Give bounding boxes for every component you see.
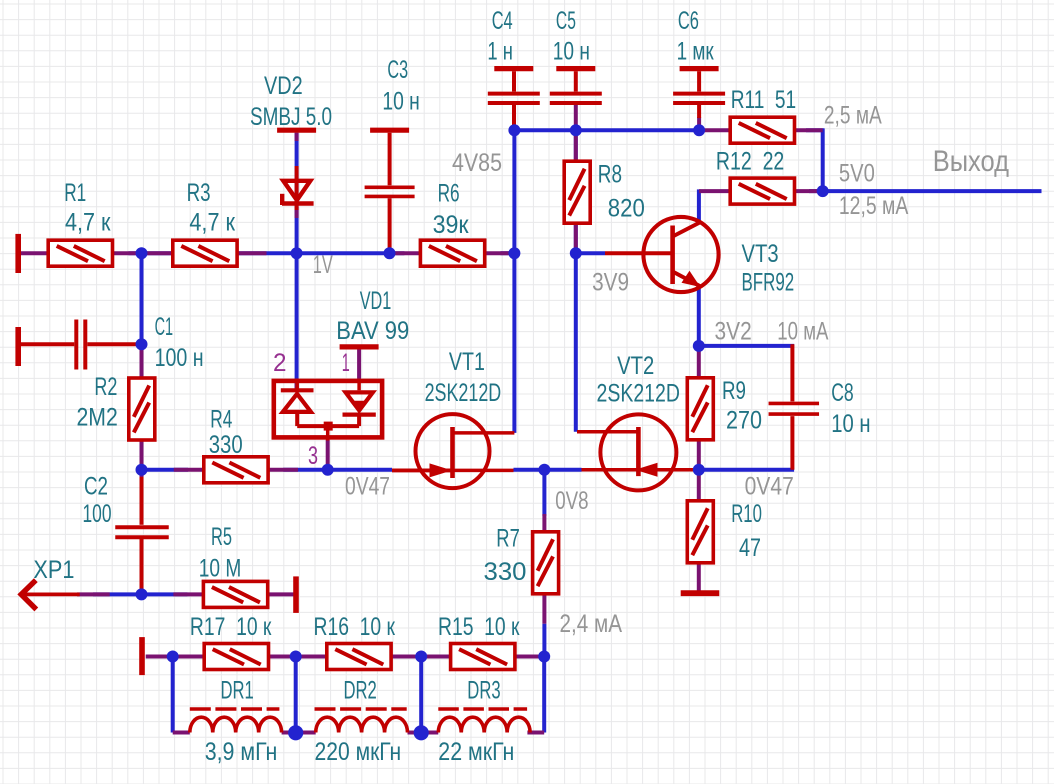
label VT3 <box>742 240 779 268</box>
svg-text:R3: R3 <box>187 179 211 207</box>
label VT2 value <box>597 380 680 408</box>
wire overlap R11 pins <box>700 128 823 132</box>
label VD1 <box>360 287 392 315</box>
resistor R8 <box>564 161 590 223</box>
label R6 <box>438 179 460 207</box>
resistor R15 <box>451 644 515 670</box>
label R7 value <box>484 558 527 586</box>
inductor DR2 <box>315 709 408 733</box>
svg-text:R15 10 к: R15 10 к <box>438 613 520 641</box>
label XP1 <box>33 556 74 584</box>
wire overlap C5 bottom pin <box>574 105 578 130</box>
wire overlap VD1 pin3 <box>326 440 330 470</box>
svg-text:1: 1 <box>342 349 350 377</box>
label R3 <box>187 179 211 207</box>
label VT3 value <box>742 269 795 297</box>
label DR1 value <box>205 738 278 766</box>
svg-text:VT3: VT3 <box>742 240 779 268</box>
node C6 top rail <box>693 124 705 136</box>
capacitor C6 <box>673 69 725 103</box>
svg-text:10 н: 10 н <box>382 88 419 116</box>
svg-text:39к: 39к <box>433 211 470 239</box>
inductor DR3 <box>438 709 530 733</box>
label C2 value <box>83 500 112 528</box>
svg-text:R12 22: R12 22 <box>716 148 784 176</box>
diode VD1 left diode <box>281 379 314 412</box>
wire overlap R2 pins <box>140 344 144 470</box>
label R9 <box>722 377 746 405</box>
svg-text:1 мк: 1 мк <box>677 37 715 65</box>
wire VD2 column <box>295 133 299 254</box>
transistor VT2 <box>577 414 696 490</box>
label 3V2 <box>715 318 752 346</box>
pin number 2 <box>273 349 287 377</box>
svg-text:XP1: XP1 <box>33 556 74 584</box>
svg-text:R11 51: R11 51 <box>731 86 797 114</box>
wire DR2-DR3 vertical <box>419 657 423 733</box>
wire C4 column down to VT1 drain <box>512 130 516 433</box>
label R1 <box>64 179 86 207</box>
wire overlap R17 pins <box>173 655 296 659</box>
node 0V47 right <box>693 464 705 476</box>
label R1 value <box>65 209 111 237</box>
svg-text:4,7 к: 4,7 к <box>65 209 111 237</box>
wire overlap R4 pins <box>174 468 298 472</box>
resistor R17 <box>204 644 268 670</box>
resistor R6 <box>420 240 484 266</box>
label R10 <box>731 500 762 528</box>
svg-text:C8: C8 <box>831 379 854 407</box>
wire VT3 emitter down to 3V2 node <box>697 286 701 346</box>
label C1 <box>155 313 174 341</box>
wire overlap R15 pins <box>421 655 544 659</box>
label 2,5 mA <box>824 102 882 130</box>
resistor R3 <box>173 240 237 266</box>
label R8 value <box>608 195 645 223</box>
node R15 right <box>538 651 550 663</box>
label R11 <box>731 86 797 114</box>
svg-text:VD1: VD1 <box>360 287 392 315</box>
pin VT3 base lead <box>605 251 671 255</box>
label DR3 value <box>438 738 514 766</box>
wire 0V47 row left R4-VD1-VT1 <box>142 468 393 472</box>
resistor R12 <box>730 178 794 204</box>
svg-text:1 н: 1 н <box>487 37 513 65</box>
label R3 value <box>189 209 236 237</box>
wire overlap DR1 pins <box>173 731 296 735</box>
wire overlap R3 pins <box>142 251 267 255</box>
wire 0V8 node to VT2 <box>544 468 581 472</box>
resistor R7 <box>533 532 559 594</box>
wire R12 left corner <box>697 189 701 222</box>
pin C6 leads <box>697 71 701 118</box>
diode VD2 terminal bar <box>277 128 316 133</box>
node R17 left <box>167 651 179 663</box>
diode VD1 pin 1 terminal bar <box>340 344 379 349</box>
svg-text:2,4 мА: 2,4 мА <box>560 610 623 638</box>
wire output to right edge <box>809 189 1042 193</box>
inductor DR1 <box>190 709 282 733</box>
capacitor C1 <box>76 320 85 370</box>
label 5V0 <box>839 159 875 187</box>
svg-text:Выход: Выход <box>933 145 1009 178</box>
label 0V47 right <box>745 473 794 501</box>
svg-text:10 M: 10 M <box>199 554 242 582</box>
wire overlap R12 pins <box>699 189 818 193</box>
label C1 value <box>155 344 204 372</box>
wire overlap DR2 pins <box>296 731 422 735</box>
wire overlap VD1 pin1 <box>357 349 361 379</box>
node 3V9 <box>570 247 582 259</box>
label VD1 value <box>336 317 409 345</box>
label VT1 value <box>425 379 502 407</box>
label Vykhod output <box>933 145 1009 178</box>
pin C3 leads <box>388 133 392 254</box>
svg-text:BFR92: BFR92 <box>742 269 795 297</box>
wire overlap R9 pins <box>697 346 701 470</box>
svg-text:R8: R8 <box>598 161 622 189</box>
pin C2 leads <box>140 477 144 594</box>
wire VT1 source to 0V8 node <box>514 468 545 472</box>
svg-text:330: 330 <box>209 431 243 459</box>
svg-text:R7: R7 <box>496 525 520 553</box>
svg-text:C4: C4 <box>492 7 513 35</box>
svg-text:3V9: 3V9 <box>592 269 629 297</box>
label VT1 <box>449 348 485 376</box>
node 3V2 <box>693 340 705 352</box>
svg-text:100: 100 <box>83 500 112 528</box>
svg-text:R10: R10 <box>731 500 762 528</box>
label R4 value <box>209 431 243 459</box>
label R7 <box>496 525 520 553</box>
label C8 value <box>831 410 870 438</box>
wire 3V9 node to VT3 base <box>576 251 605 255</box>
wire VD2 node down to VD1 pin 2 <box>295 253 299 390</box>
pin C1 right lead <box>87 342 141 346</box>
svg-text:R4: R4 <box>210 406 232 434</box>
svg-text:2: 2 <box>273 349 287 377</box>
label C6 <box>678 7 699 35</box>
svg-text:C1: C1 <box>155 313 174 341</box>
node XP1 <box>136 588 148 600</box>
terminal bottom chain left <box>139 637 145 675</box>
label DR1 <box>221 676 254 704</box>
svg-text:10 н: 10 н <box>553 37 590 65</box>
svg-text:R9: R9 <box>722 377 746 405</box>
svg-text:C6: C6 <box>678 7 699 35</box>
svg-text:12,5 мА: 12,5 мА <box>839 192 909 220</box>
label C5 value <box>553 37 590 65</box>
svg-text:SMBJ 5.0: SMBJ 5.0 <box>250 103 332 131</box>
label C2 <box>84 473 108 501</box>
node R6/C4 4V85 <box>508 247 520 259</box>
svg-text:22 мкГн: 22 мкГн <box>438 738 514 766</box>
wire 0V8 node down to R7 <box>542 470 546 516</box>
wire 0V47 node to C8 bottom corner <box>699 468 794 472</box>
svg-text:DR2: DR2 <box>344 676 377 704</box>
svg-text:DR3: DR3 <box>467 676 500 704</box>
label R6 value <box>433 211 470 239</box>
node 5V0 output <box>817 185 829 197</box>
label R17 <box>190 613 272 641</box>
wire overlap VD1 pin2 <box>295 379 299 390</box>
svg-text:C3: C3 <box>387 56 408 84</box>
node C4 top rail <box>508 124 520 136</box>
pin C1 left lead <box>21 342 74 346</box>
wire C1 node vertical <box>140 253 144 344</box>
pin VD2 lead <box>295 166 299 210</box>
label R4 <box>210 406 232 434</box>
label C8 <box>831 379 854 407</box>
svg-text:3: 3 <box>308 442 318 470</box>
wire DR1-DR2 vertical <box>294 657 298 733</box>
resistor R1 <box>48 240 112 266</box>
wire overlap R7 pins <box>542 514 546 624</box>
label C3 value <box>382 88 419 116</box>
pin C4 leads <box>512 71 516 128</box>
svg-text:220 мкГн: 220 мкГн <box>315 738 402 766</box>
diode VD2 <box>282 181 314 205</box>
label C4 <box>492 7 513 35</box>
wire XP1 row <box>93 592 187 596</box>
svg-text:2,5 мА: 2,5 мА <box>824 102 882 130</box>
label C4 value <box>487 37 513 65</box>
pin number 3 <box>308 442 318 470</box>
svg-text:0V8: 0V8 <box>555 487 588 515</box>
resistor R16 <box>327 644 391 670</box>
node C1 cap <box>136 338 148 350</box>
label R15 <box>438 613 520 641</box>
pin number 1 <box>342 349 350 377</box>
label 0V47 left <box>345 473 390 501</box>
svg-text:10 н: 10 н <box>831 410 870 438</box>
svg-text:4V85: 4V85 <box>452 149 502 177</box>
label R10 value <box>739 534 761 562</box>
transistor VT1 <box>392 414 514 488</box>
label R5 value <box>199 554 242 582</box>
label R2 <box>94 373 117 401</box>
diode VD1 box <box>274 381 382 438</box>
node C3 1V <box>384 247 396 259</box>
svg-text:0V47: 0V47 <box>745 473 794 501</box>
svg-text:VD2: VD2 <box>264 72 303 100</box>
wire bottom chain row <box>173 655 545 659</box>
wire overlap XP1 pin <box>77 592 110 596</box>
label VT2 <box>617 352 654 380</box>
svg-text:270: 270 <box>726 406 762 434</box>
pin C5 top lead <box>574 71 578 91</box>
terminal left C1 <box>15 327 21 366</box>
label 3V9 <box>592 269 629 297</box>
node 0V8 <box>538 464 550 476</box>
node R15 left <box>415 651 427 663</box>
svg-text:3,9 мГн: 3,9 мГн <box>205 738 278 766</box>
label 2,4 mA <box>560 610 623 638</box>
label DR2 value <box>315 738 402 766</box>
ground under R10 <box>681 590 720 596</box>
resistor R2 <box>129 378 155 440</box>
svg-text:100 н: 100 н <box>155 344 204 372</box>
svg-text:2SK212D: 2SK212D <box>425 379 502 407</box>
svg-text:DR1: DR1 <box>221 676 254 704</box>
diode VD1 internal junction <box>297 412 359 441</box>
wire overlap DR3 pins <box>421 731 544 735</box>
label C5 <box>556 7 576 35</box>
svg-text:R6: R6 <box>438 179 460 207</box>
wire R7 bottom to chain node <box>542 624 546 657</box>
wire overlap R6 pins <box>390 251 514 255</box>
svg-text:3V2: 3V2 <box>715 318 752 346</box>
wire R11 right to corner <box>806 128 824 132</box>
label 4V85 <box>452 149 502 177</box>
label DR3 <box>467 676 500 704</box>
terminal left top <box>15 234 21 273</box>
svg-text:R2: R2 <box>94 373 117 401</box>
wire overlap C2 top stub <box>140 470 144 478</box>
wire overlap bottom terminal <box>146 655 173 659</box>
label R12 <box>716 148 784 176</box>
wire C5 column R8 to 3V9 column down to VT2 drain <box>574 130 578 432</box>
label R16 <box>314 613 396 641</box>
label VD2 value <box>250 103 332 131</box>
terminal R5 right <box>293 576 299 613</box>
svg-text:R17 10 к: R17 10 к <box>190 613 272 641</box>
label C6 value <box>677 37 715 65</box>
wire corner down to 5V0 node <box>821 129 825 192</box>
svg-text:1V: 1V <box>313 251 333 279</box>
label 10 mA <box>777 318 828 346</box>
wire 3V2 node to C8 top corner <box>699 344 794 348</box>
node C1 tee <box>136 247 148 259</box>
resistor R5 <box>203 581 267 607</box>
svg-text:C5: C5 <box>556 7 576 35</box>
node DR1-DR2 <box>288 725 303 740</box>
node VD2/VD1 <box>291 247 303 259</box>
label 12,5 mA <box>839 192 909 220</box>
label DR2 <box>344 676 377 704</box>
wire overlap R5 pins <box>173 592 296 596</box>
wire main 1V rail R1-R3-R6 <box>129 251 515 255</box>
svg-text:C2: C2 <box>84 473 108 501</box>
capacitor C3 <box>365 130 415 196</box>
svg-text:2M2: 2M2 <box>77 404 118 432</box>
svg-text:47: 47 <box>739 534 761 562</box>
diode VD1 right diode <box>343 379 376 415</box>
wire overlap C6 bottom pin <box>697 117 701 130</box>
label R2 value <box>77 404 118 432</box>
label C3 <box>387 56 408 84</box>
resistor R10 <box>687 501 713 563</box>
wire overlap R8 pins <box>574 130 578 253</box>
svg-text:BAV 99: BAV 99 <box>336 317 409 345</box>
node C5 top rail <box>570 124 582 136</box>
pin C8 leads <box>790 344 794 470</box>
transistor VT3 <box>643 217 718 292</box>
node R4 left <box>136 464 148 476</box>
svg-text:330: 330 <box>484 558 527 586</box>
svg-text:0V47: 0V47 <box>345 473 390 501</box>
resistor R11 <box>730 117 794 143</box>
wire overlap R16 pins <box>296 655 422 659</box>
wire overlap R10 pins <box>697 470 701 591</box>
svg-text:10 мА: 10 мА <box>777 318 828 346</box>
label 0V8 <box>555 487 588 515</box>
svg-text:4,7 к: 4,7 к <box>189 209 236 237</box>
capacitor C2 <box>115 527 169 537</box>
svg-text:VT2: VT2 <box>617 352 654 380</box>
capacitor C4 <box>488 69 540 103</box>
label R8 <box>598 161 622 189</box>
wire DR3 right vertical to R7 <box>542 657 546 733</box>
capacitor C5 <box>550 69 602 103</box>
label R5 <box>211 523 232 551</box>
svg-text:R1: R1 <box>64 179 86 207</box>
node DR2-DR3 <box>414 725 429 740</box>
resistor R9 <box>687 378 713 440</box>
svg-text:VT1: VT1 <box>449 348 485 376</box>
svg-text:2SK212D: 2SK212D <box>597 380 680 408</box>
node R16 left <box>290 651 302 663</box>
label R9 value <box>726 406 762 434</box>
svg-text:R16 10 к: R16 10 к <box>314 613 396 641</box>
connector XP1 arrow <box>21 580 80 609</box>
svg-text:R5: R5 <box>211 523 232 551</box>
svg-text:820: 820 <box>608 195 645 223</box>
wire DR1 left vertical <box>171 657 175 733</box>
svg-text:5V0: 5V0 <box>839 159 875 187</box>
label VD2 <box>264 72 303 100</box>
wire overlap VD2 pins <box>295 133 299 218</box>
wire overlap R1 pins <box>21 251 142 255</box>
wire top rail C4-C5-C6 to R11 <box>514 128 704 132</box>
node VD1 pin3 <box>322 464 334 476</box>
resistor R4 <box>204 457 268 483</box>
capacitor C8 <box>769 403 820 414</box>
label 1V <box>313 251 333 279</box>
